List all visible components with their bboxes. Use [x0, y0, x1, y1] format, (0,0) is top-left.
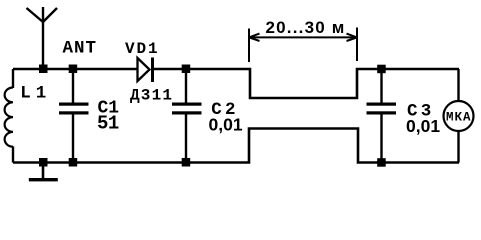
inductor L1 — [5, 88, 13, 147]
svg-text:Д311: Д311 — [130, 87, 173, 105]
svg-text:20...30 м: 20...30 м — [266, 18, 346, 37]
capacitor C1 — [59, 69, 89, 163]
ground symbol — [29, 163, 58, 182]
svg-text:0,01: 0,01 — [209, 115, 243, 135]
capacitor C3 — [367, 69, 397, 163]
svg-text:ANT: ANT — [63, 39, 98, 59]
wire top rail middle segment (diode cathode to cable start, corner down) — [153, 69, 459, 98]
svg-text:51: 51 — [97, 113, 119, 135]
antenna symbol — [27, 7, 58, 69]
junction ground / bottom rail — [39, 158, 48, 167]
svg-text:МКА: МКА — [446, 110, 472, 124]
dimension line with arrows — [249, 34, 357, 41]
meter PA1 microammeter — [444, 101, 474, 131]
wire right vertical upper (rail to meter) — [457, 69, 459, 101]
wire bottom rail left segment — [13, 129, 459, 163]
svg-text:L1: L1 — [20, 83, 51, 103]
diode VD1 — [138, 58, 153, 83]
wire left vertical (to L1) — [12, 69, 14, 88]
junction antenna / top rail — [39, 65, 48, 74]
junction C1 / bottom rail — [69, 158, 78, 167]
junction C3 / bottom rail — [377, 158, 386, 167]
wire top rail left segment — [13, 68, 137, 71]
capacitor C2 — [172, 69, 202, 163]
junction C2 / bottom rail — [182, 158, 191, 167]
dimension extension line right — [356, 28, 358, 62]
junction C1 / top rail — [69, 65, 78, 74]
dimension extension line left — [248, 29, 250, 63]
svg-text:VD1: VD1 — [125, 40, 160, 58]
junction C3 / top rail — [377, 65, 386, 74]
wire right vertical lower (meter to bottom rail) — [457, 131, 459, 163]
svg-text:0,01: 0,01 — [406, 116, 440, 136]
junction C2 / top rail — [182, 65, 191, 74]
wire left vertical lower (L1 to bottom rail) — [12, 146, 14, 162]
